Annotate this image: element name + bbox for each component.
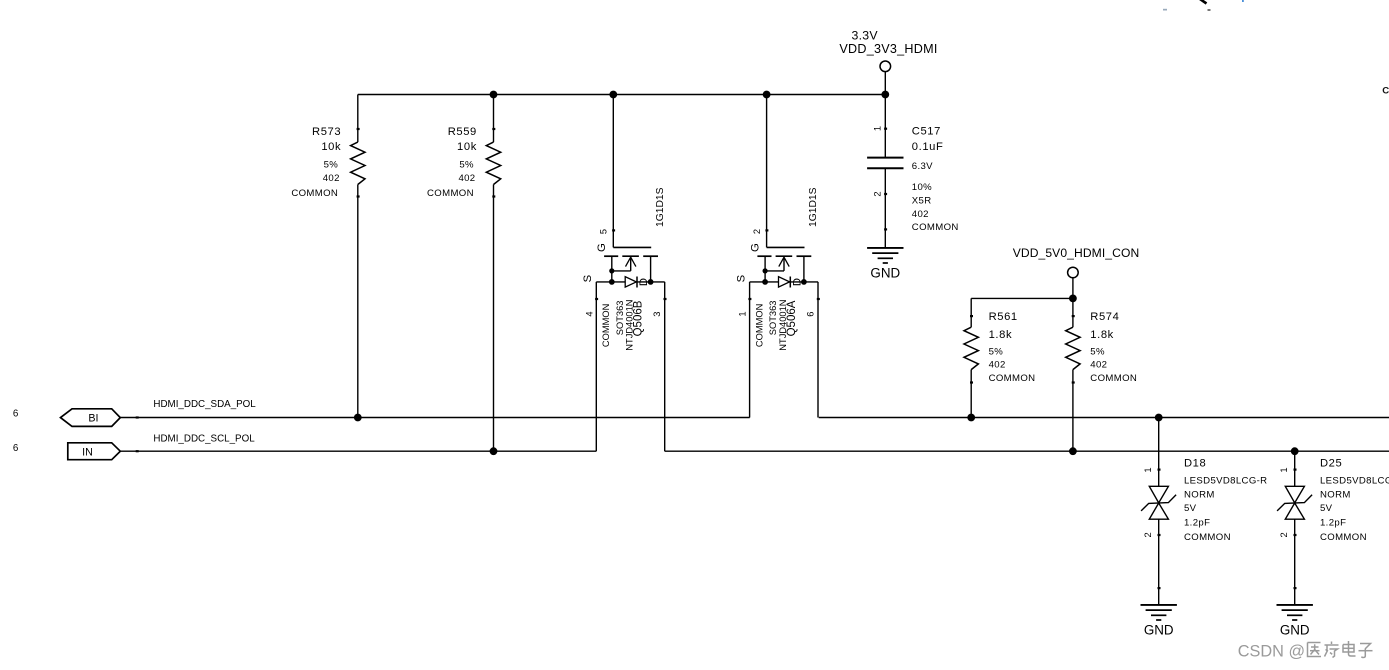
svg-text:GND: GND — [1280, 622, 1310, 637]
watermark CSDN @医疗电子 — [1238, 641, 1373, 660]
svg-text:2: 2 — [873, 191, 883, 196]
svg-text:S: S — [735, 274, 747, 282]
svg-text:C517: C517 — [912, 126, 941, 138]
svg-text:R573: R573 — [312, 126, 341, 138]
svg-text:1: 1 — [738, 311, 748, 316]
svg-text:Q506A: Q506A — [786, 300, 798, 336]
svg-text:402: 402 — [912, 209, 929, 220]
svg-text:SOT363: SOT363 — [768, 301, 778, 336]
diode D25 LESD5VD8LCG-R TVS — [1277, 451, 1389, 605]
ground GND D18 — [1141, 605, 1177, 637]
svg-text:4: 4 — [584, 311, 594, 316]
svg-text:NORM: NORM — [1320, 490, 1351, 501]
svg-text:G: G — [596, 243, 608, 252]
ground GND C517 — [867, 248, 903, 280]
svg-text:COMMON: COMMON — [291, 188, 338, 199]
svg-text:10k: 10k — [457, 141, 477, 153]
junction R573/SDA — [354, 414, 362, 422]
svg-text:1G1D1S: 1G1D1S — [808, 187, 819, 227]
wire SCL 5V side — [665, 450, 1389, 452]
svg-text:1: 1 — [1143, 467, 1153, 472]
svg-text:COMMON: COMMON — [1184, 532, 1231, 543]
port IN HDMI_DDC_SCL_POL — [68, 443, 121, 460]
svg-text:COMMON: COMMON — [912, 222, 959, 233]
wire 3.3V rail — [358, 94, 886, 96]
svg-text:402: 402 — [323, 173, 340, 184]
svg-text:D25: D25 — [1320, 457, 1342, 469]
svg-text:GND: GND — [870, 265, 900, 280]
wire HDMI_DDC_SDA_POL — [120, 417, 749, 419]
capacitor C517 0.1uF — [867, 95, 959, 248]
transistor Q506A NTJD4001N — [735, 95, 819, 418]
svg-text:402: 402 — [1090, 360, 1107, 371]
svg-text:D: D — [638, 278, 650, 286]
junction rail/Q506A gate — [763, 91, 771, 99]
junction rail/Q506B gate — [609, 91, 617, 99]
power symbol VDD_3V3_HDMI — [839, 29, 937, 95]
transistor Q506B NTJD4001N — [582, 95, 666, 452]
junction D25/SCL — [1291, 447, 1299, 455]
wire HDMI_DDC_SCL_POL — [120, 450, 596, 452]
svg-text:D: D — [792, 278, 804, 286]
svg-text:R574: R574 — [1090, 311, 1119, 323]
svg-text:S: S — [582, 274, 594, 282]
svg-text:LESD5VD8LCG-R: LESD5VD8LCG-R — [1320, 476, 1389, 487]
wire 5V branch — [971, 297, 1073, 299]
svg-text:R559: R559 — [448, 126, 477, 138]
svg-text:1.8k: 1.8k — [989, 329, 1013, 341]
svg-text:5%: 5% — [1090, 347, 1105, 358]
resistor R574 1.8k — [1066, 298, 1137, 451]
junction R559/SCL — [490, 447, 498, 455]
svg-text:2: 2 — [752, 229, 762, 234]
svg-text:402: 402 — [458, 173, 475, 184]
svg-text:NORM: NORM — [1184, 490, 1215, 501]
svg-text:D18: D18 — [1184, 457, 1206, 469]
svg-text:HDMI_DDC_SCL_POL: HDMI_DDC_SCL_POL — [153, 433, 255, 444]
ground GND D25 — [1277, 605, 1313, 637]
svg-text:5%: 5% — [324, 160, 339, 171]
diode D18 LESD5VD8LCG-R TVS — [1141, 418, 1267, 605]
svg-text:GND: GND — [1144, 622, 1174, 637]
svg-text:10k: 10k — [321, 141, 341, 153]
svg-text:6: 6 — [13, 443, 19, 454]
junction 5V branch — [1069, 295, 1077, 303]
svg-text:X5R: X5R — [912, 196, 932, 207]
svg-text:5%: 5% — [989, 347, 1004, 358]
svg-text:COMMON: COMMON — [754, 304, 764, 347]
cropped fragments top edge — [1163, 0, 1244, 11]
svg-text:3: 3 — [652, 312, 662, 317]
resistor R559 10k — [427, 95, 501, 452]
resistor R561 1.8k — [964, 298, 1035, 417]
junction D18/SDA — [1155, 414, 1163, 422]
svg-text:6: 6 — [13, 409, 19, 420]
svg-text:COMMON: COMMON — [1090, 373, 1137, 384]
svg-text:HDMI_DDC_SDA_POL: HDMI_DDC_SDA_POL — [153, 399, 256, 410]
svg-text:5: 5 — [599, 229, 609, 234]
svg-text:CSDN @: CSDN @ — [1238, 642, 1305, 660]
svg-text:IN: IN — [82, 446, 93, 458]
svg-text:VDD_3V3_HDMI: VDD_3V3_HDMI — [839, 42, 937, 56]
svg-text:COMMON: COMMON — [1320, 532, 1367, 543]
svg-text:COMMON: COMMON — [989, 373, 1036, 384]
svg-text:0.1uF: 0.1uF — [912, 141, 944, 153]
svg-text:6: 6 — [805, 312, 815, 317]
svg-text:1: 1 — [1279, 467, 1289, 472]
svg-text:C5: C5 — [1382, 86, 1389, 97]
junction R574/SCL — [1069, 447, 1077, 455]
svg-text:BI: BI — [88, 413, 98, 425]
svg-text:SOT363: SOT363 — [615, 301, 625, 336]
junction R561/SDA — [967, 414, 975, 422]
svg-text:COMMON: COMMON — [601, 304, 611, 347]
svg-text:6.3V: 6.3V — [912, 161, 933, 172]
svg-text:COMMON: COMMON — [427, 188, 474, 199]
svg-text:VDD_5V0_HDMI_CON: VDD_5V0_HDMI_CON — [1013, 246, 1140, 260]
svg-text:LESD5VD8LCG-R: LESD5VD8LCG-R — [1184, 476, 1267, 487]
svg-text:3.3V: 3.3V — [851, 29, 878, 43]
svg-text:R561: R561 — [989, 311, 1018, 323]
svg-text:G: G — [749, 243, 761, 252]
power symbol VDD_5V0_HDMI_CON — [1013, 246, 1140, 298]
svg-text:5V: 5V — [1320, 503, 1333, 514]
svg-text:5V: 5V — [1184, 503, 1197, 514]
svg-text:1G1D1S: 1G1D1S — [655, 187, 666, 227]
svg-text:2: 2 — [1279, 532, 1289, 537]
svg-text:1.2pF: 1.2pF — [1320, 518, 1346, 529]
svg-text:Q506B: Q506B — [633, 300, 645, 336]
resistor R573 10k — [291, 95, 365, 418]
svg-text:10%: 10% — [912, 182, 932, 193]
svg-text:1: 1 — [873, 126, 883, 131]
svg-text:2: 2 — [1143, 532, 1153, 537]
junction rail/R559 — [490, 91, 498, 99]
svg-text:1.8k: 1.8k — [1090, 329, 1114, 341]
svg-text:402: 402 — [989, 360, 1006, 371]
junction rail/C517 — [881, 91, 889, 99]
svg-text:1.2pF: 1.2pF — [1184, 518, 1210, 529]
svg-text:5%: 5% — [459, 160, 474, 171]
wire SDA 5V side — [819, 417, 1389, 419]
port BI HDMI_DDC_SDA_POL — [61, 409, 121, 427]
